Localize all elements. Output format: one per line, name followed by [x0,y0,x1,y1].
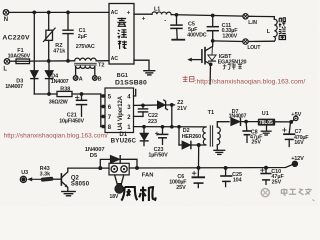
capacitor C1 [63,12,73,61]
capacitor C6 [192,168,204,188]
node junction LOUT-C11 [211,39,215,43]
fuse F1 [10,59,30,64]
node U3 terminal [20,176,26,182]
node N terminal [3,10,9,16]
varistor RZ [44,12,56,61]
watermark logo 电工之家 gray [261,189,269,197]
node terminal A [73,76,78,81]
wire HV rail [171,15,243,17]
transformer T1 [203,122,229,150]
regulator U1 78L05 [258,119,275,126]
node junction Z2-gnd [170,125,174,129]
node junction rail-D5R [135,166,139,170]
ground (Q2) [62,192,75,196]
ground (bridge minus) [144,71,155,75]
zener Z2 [157,100,174,110]
diode D7 [231,118,258,126]
node junction FB-C22 [141,103,145,107]
capacitor C23 [155,127,167,145]
node junction L-RZ/D4 [47,59,51,63]
capacitor C22 [134,105,148,116]
wire pin1 gnd row [134,126,207,128]
ideograms 风机 (fan) big [121,187,155,202]
wire N rail [9,11,109,13]
node junction rail-D5L [98,166,102,170]
heating coil L [248,16,277,41]
diode D4 [45,61,53,94]
node L.IN terminal [243,14,248,19]
node junction rail-C6 [197,166,201,170]
diode D5 loop [100,155,137,168]
capacitor C8 [243,122,250,143]
wire pin3 FB row [134,104,158,106]
capacitor C25 [221,168,232,187]
ground (T1 sec) [214,150,225,154]
rectifier bridge BG1 [109,4,134,65]
diode D1 [140,127,149,146]
node +5V terminal [291,116,298,122]
node L.OUT terminal [243,39,248,44]
fan motor FAN [109,163,129,193]
node junction C21 [80,92,84,96]
node junction C23 [161,125,165,129]
node junction N-RZ [47,11,51,15]
diode D3 [30,12,38,94]
ground (U1) [261,126,271,135]
node junction rail-C10 [264,166,268,170]
capacitor C21 [75,94,86,116]
wire pin4 VDD stub [134,89,136,96]
diode D2 [179,127,206,149]
wire +18/+12 bottom rail [68,167,109,169]
wire L row [30,60,75,62]
wire U1 out [275,121,291,123]
capacitor C5 [171,15,184,40]
resistor R43 [27,177,61,182]
transistor Q2 [61,168,67,191]
transistor IGBT [187,41,216,84]
node junction Z2 drop [170,103,174,107]
node +12V terminal [292,161,297,166]
wire D2 to +18 rail [198,145,200,168]
node junction rail-C5 [175,13,179,17]
node junction N-C1 [66,11,70,15]
node junction D1 [142,125,146,129]
ideograms 加热线圈 (heating coil) [279,18,286,40]
node terminal B [93,76,98,81]
node L terminal [4,59,10,65]
transformer T2 [75,58,109,76]
wire bridge minus [134,60,149,70]
node junction N-D3 [32,11,36,15]
node junction L-C1 [66,59,70,63]
node junction D2 drop [177,125,181,129]
stray mark [312,200,314,201]
node junction D2 out [197,143,201,147]
wire bridge+ to L1 [134,13,152,15]
node junction C7 [289,120,293,124]
watermark red line 1: 来自:http://shanxishaoqian.blog.163.com/ [183,76,306,86]
resistor R38 row wire [34,93,57,95]
capacitor C11 [207,16,218,41]
ideograms 整流桥 (rectifier bridge) [117,18,127,49]
node junction D4-R38 row [47,92,51,96]
capacitor C7 [283,122,295,147]
node junction C8 [244,120,248,124]
wire Z2 to gnd row [171,105,173,127]
node junction rail-C25 [224,166,228,170]
ideograms 功率管 (power tube) [223,64,242,70]
wire LOUT row [213,40,243,43]
inductor L1 [152,12,171,15]
capacitor C10 [261,168,271,185]
IC U4 VIPer12A [101,88,134,133]
resistor R38 [57,91,72,96]
node junction rail-C11 [211,14,215,18]
